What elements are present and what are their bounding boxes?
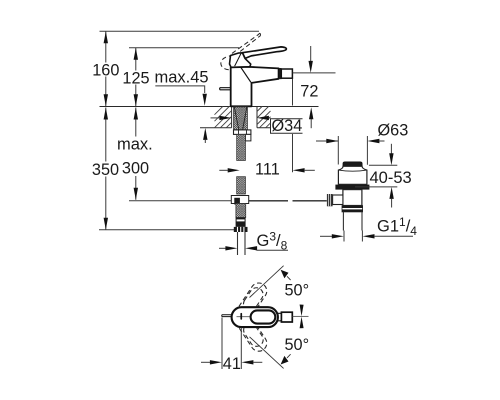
- hatching right of hole: [257, 107, 271, 128]
- arrow max45 down: [203, 94, 207, 106]
- svg-text:50°: 50°: [285, 281, 310, 299]
- O34 arrows: [219, 116, 269, 120]
- extension line (125 ref): [129, 47, 239, 49]
- svg-text:72: 72: [300, 82, 318, 100]
- G3/8 pipe: [238, 232, 246, 255]
- waste body: [343, 190, 362, 206]
- dim line 125/max300 vertical: [135, 48, 137, 200]
- pop-up knob rod left: [220, 88, 231, 90]
- arrow 125 bottom: [134, 94, 138, 106]
- arrow max300 bottom: [134, 188, 138, 200]
- dim line 160/350 vertical: [105, 31, 107, 230]
- small guide block right: [245, 134, 251, 141]
- braided hose upper: [237, 134, 246, 160]
- svg-text:350: 350: [92, 161, 119, 179]
- spout joint dark band: [279, 68, 282, 79]
- trumpet flange: [338, 166, 367, 184]
- centerline in body: [237, 316, 255, 318]
- O63 dim: [316, 122, 408, 165]
- pop-up rod top view: [222, 315, 233, 317]
- drain pipe: [343, 212, 362, 231]
- 50deg leader lines: [250, 266, 284, 369]
- arrows left dims: [104, 31, 138, 230]
- hose ferrule: [236, 218, 246, 227]
- aerator: [281, 69, 292, 78]
- svg-text:Ø34: Ø34: [272, 117, 303, 135]
- body facet line: [241, 67, 251, 82]
- small vertical arrows at centerline: [300, 305, 304, 329]
- arrow 160 bottom: [104, 94, 108, 106]
- extension line top (160 ref): [100, 30, 260, 32]
- arrow 125 top: [134, 48, 138, 60]
- pivot tick: [240, 313, 242, 320]
- svg-text:125: 125: [122, 69, 149, 87]
- neck to aerator: [278, 313, 282, 321]
- threaded shank through deck: [234, 107, 248, 130]
- centerline right: [293, 315, 309, 317]
- leader max.45: [155, 86, 204, 93]
- vertical ref line from aerator: [292, 79, 294, 172]
- lever handle solid: [242, 47, 286, 59]
- slot: [251, 310, 276, 323]
- lifter knob: [343, 162, 362, 166]
- aerator top view: [281, 312, 292, 322]
- deck top line: [100, 106, 319, 108]
- top view body: [232, 307, 278, 327]
- svg-text:111: 111: [255, 160, 280, 178]
- arrow max45 up below deck: [203, 128, 207, 143]
- svg-text:160: 160: [92, 61, 119, 79]
- gasket: [335, 185, 369, 190]
- svg-text:40-53: 40-53: [370, 169, 412, 187]
- dashed swung handles: [230, 280, 269, 354]
- G3/8 nut: [234, 227, 248, 232]
- hatching left of hole: [215, 107, 232, 128]
- svg-text:41: 41: [223, 355, 241, 373]
- svg-text:max.: max.: [117, 135, 153, 153]
- bottom line 350 ref: [99, 229, 237, 231]
- arrow 350 bottom: [104, 218, 108, 230]
- svg-text:max.45: max.45: [155, 69, 209, 87]
- G1 1/4 dim: [320, 215, 417, 242]
- 41 dimension: [201, 318, 262, 374]
- svg-text:300: 300: [122, 160, 149, 178]
- G3/8 dim: [219, 229, 288, 252]
- knurled knob: [327, 194, 333, 206]
- braided hose mid (after 111 gap): [237, 177, 246, 194]
- dashed handle base arcs: [221, 56, 234, 70]
- arrow 160 top: [104, 31, 108, 43]
- lock nut: [342, 206, 363, 212]
- mounting nut: [234, 130, 251, 135]
- 50 deg arrowheads: [281, 270, 289, 365]
- side boss: [333, 195, 343, 205]
- deck bottom line: [200, 127, 271, 129]
- braided hose lower: [236, 204, 246, 218]
- 40-53 dim: [355, 144, 412, 208]
- svg-text:50°: 50°: [285, 336, 310, 354]
- arrow max300 top: [134, 108, 138, 120]
- hole edges: [232, 107, 257, 128]
- faucet body: [231, 67, 279, 106]
- svg-text:Ø63: Ø63: [378, 122, 409, 140]
- arrow 350 top (below deck, up): [104, 108, 108, 120]
- lever dashed (upper position): [221, 33, 261, 69]
- O34 label box: [271, 119, 303, 133]
- rod clamp fitting: [231, 196, 248, 204]
- line max300 ref / pop-up rod level: [129, 200, 231, 202]
- handle base block: [230, 53, 251, 68]
